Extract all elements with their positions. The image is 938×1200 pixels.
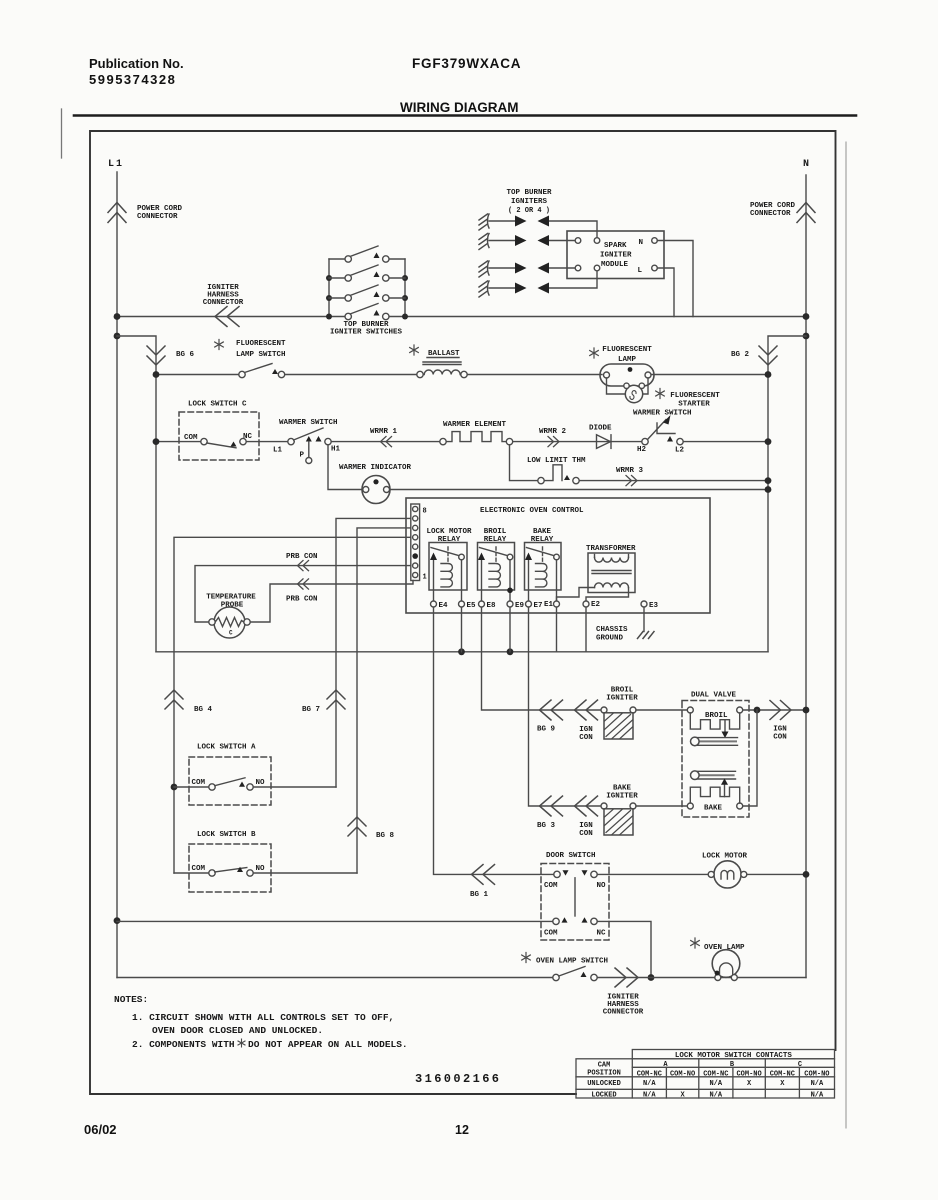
junction BG4/LSA xyxy=(171,784,178,791)
svg-text:H1: H1 xyxy=(331,446,341,454)
svg-text:Publication No.: Publication No. xyxy=(89,56,184,71)
low limit thermostat xyxy=(527,457,586,484)
wire E7 to bake igniter line xyxy=(529,607,601,806)
svg-text:WARMER SWITCH: WARMER SWITCH xyxy=(633,410,692,418)
svg-text:COM: COM xyxy=(192,779,206,787)
svg-text:IGNITERS: IGNITERS xyxy=(511,198,548,206)
svg-text:BG 1: BG 1 xyxy=(470,891,489,899)
junction BG6/fluor xyxy=(153,371,160,378)
svg-text:N: N xyxy=(803,159,809,170)
svg-text:TOP BURNER: TOP BURNER xyxy=(506,189,552,197)
wire door COM line xyxy=(117,920,553,922)
fluorescent starter xyxy=(607,378,721,409)
wire broil valve to bus xyxy=(743,709,806,711)
svg-text:E3: E3 xyxy=(649,602,659,610)
svg-text:BROIL: BROIL xyxy=(484,528,507,536)
junction bake riser xyxy=(754,707,761,714)
svg-text:BG 9: BG 9 xyxy=(537,726,556,734)
svg-text:NOTES:: NOTES: xyxy=(114,994,148,1005)
svg-text:WARMER SWITCH: WARMER SWITCH xyxy=(279,419,338,427)
EOC connector strip P1 xyxy=(411,504,427,582)
svg-text:ELECTRONIC OVEN CONTROL: ELECTRONIC OVEN CONTROL xyxy=(480,507,584,515)
scan artifact line right xyxy=(845,142,847,1128)
oven lamp switch xyxy=(522,953,608,981)
svg-text:BG 8: BG 8 xyxy=(376,832,395,840)
svg-text:WRMR 1: WRMR 1 xyxy=(370,428,398,436)
connector IGN CON broil left xyxy=(575,700,598,742)
svg-text:NO: NO xyxy=(256,779,266,787)
wire E4 to door switch line xyxy=(434,607,554,874)
wire BG4 to LSA COM xyxy=(174,786,209,788)
junction NC riser/lamp line xyxy=(648,974,655,981)
svg-text:BG 4: BG 4 xyxy=(194,706,213,714)
note asterisk xyxy=(238,1039,245,1047)
wire oven lamp line y=977.5 xyxy=(117,977,806,979)
svg-text:COM-NO: COM-NO xyxy=(670,1070,695,1078)
svg-text:DUAL VALVE: DUAL VALVE xyxy=(691,692,737,700)
svg-text:IGN: IGN xyxy=(579,726,593,734)
svg-text:H2: H2 xyxy=(637,446,647,454)
svg-text:E1: E1 xyxy=(544,601,554,609)
top burner igniter row 1 xyxy=(479,214,597,238)
svg-text:OVEN DOOR CLOSED AND UNLOCKED.: OVEN DOOR CLOSED AND UNLOCKED. xyxy=(152,1025,323,1036)
page header publication number xyxy=(89,56,521,115)
svg-text:E7: E7 xyxy=(534,602,543,610)
warmer switch right xyxy=(633,410,692,455)
svg-text:LOW LIMIT THM: LOW LIMIT THM xyxy=(527,457,586,465)
wire fluorescent line y=374.5 xyxy=(156,374,768,376)
junction BG2/lowlimit xyxy=(765,477,772,484)
svg-text:C: C xyxy=(798,1061,802,1069)
svg-text:316002166: 316002166 xyxy=(415,1072,501,1086)
svg-text:WIRING DIAGRAM: WIRING DIAGRAM xyxy=(400,100,519,115)
warmer element xyxy=(440,421,513,445)
wire bake valve to riser xyxy=(743,710,757,806)
svg-text:UNLOCKED: UNLOCKED xyxy=(587,1080,621,1088)
junction dots rails xyxy=(326,275,408,320)
wire bake igniter to valve xyxy=(636,805,687,807)
wire LSB NO to BG8 xyxy=(253,872,357,874)
electronic oven control box xyxy=(406,498,710,613)
lock switch B xyxy=(189,831,271,892)
broil igniter xyxy=(601,687,638,740)
junction L1/main xyxy=(114,313,121,320)
svg-text:BG 6: BG 6 xyxy=(176,351,195,359)
svg-text:COM-NO: COM-NO xyxy=(804,1070,829,1078)
svg-text:N/A: N/A xyxy=(811,1091,824,1099)
junction L1 to BG6 jog xyxy=(114,333,121,340)
lock switch A xyxy=(189,744,271,806)
svg-text:E4: E4 xyxy=(439,602,449,610)
connector BG 9 xyxy=(537,700,563,734)
title underline rule xyxy=(74,114,856,117)
lock switch C xyxy=(179,401,259,461)
svg-text:TRANSFORMER: TRANSFORMER xyxy=(586,545,636,553)
wire E9 down to cross line xyxy=(509,607,511,652)
svg-text:1: 1 xyxy=(423,574,427,582)
connector IGN CON valve out xyxy=(770,701,791,742)
wire switch block left rail xyxy=(328,259,330,317)
wire L1 bus vertical xyxy=(116,172,118,978)
top burner igniter switches block xyxy=(326,246,408,337)
svg-text:L1: L1 xyxy=(108,159,124,170)
svg-text:8: 8 xyxy=(423,508,427,516)
wire lock motor to N bus xyxy=(747,873,806,875)
svg-text:E5: E5 xyxy=(467,602,477,610)
wire main L line y=316.5 xyxy=(117,316,806,318)
wire pin2 PRB to probe left xyxy=(195,566,411,622)
connector BG 1 xyxy=(470,865,495,900)
wire E2 down to cross line xyxy=(585,607,587,652)
svg-text:COM: COM xyxy=(544,930,558,938)
svg-text:WRMR 2: WRMR 2 xyxy=(539,428,567,436)
switch row 1 xyxy=(329,246,405,259)
svg-text:FLUORESCENT: FLUORESCENT xyxy=(236,340,286,348)
svg-text:E9: E9 xyxy=(515,602,525,610)
wire broil igniter to valve xyxy=(636,709,687,711)
svg-text:COM-NC: COM-NC xyxy=(770,1070,795,1078)
wire pin6 to BG8 xyxy=(357,528,411,873)
svg-text:STARTER: STARTER xyxy=(678,401,710,409)
broil valve plunger xyxy=(696,738,738,746)
svg-text:L2: L2 xyxy=(675,447,685,455)
connector BG 8 xyxy=(348,817,395,840)
connector BG 3 xyxy=(537,796,563,830)
junction N/lockmotor xyxy=(803,871,810,878)
warmer indicator lamp xyxy=(328,445,771,504)
door switch link xyxy=(574,878,576,916)
svg-text:BROIL: BROIL xyxy=(705,712,728,720)
diode D1 xyxy=(589,425,612,449)
svg-text:5995374328: 5995374328 xyxy=(89,72,176,87)
svg-text:N: N xyxy=(639,239,644,247)
diagram border frame xyxy=(90,131,836,1094)
top burner igniter row 2 xyxy=(479,234,575,250)
power cord connector L1 xyxy=(108,203,183,223)
svg-text:COM: COM xyxy=(544,882,558,890)
door switch lower pole xyxy=(553,918,559,924)
svg-text:DOOR SWITCH: DOOR SWITCH xyxy=(546,852,596,860)
switch row 2 xyxy=(329,265,405,278)
svg-text:CONNECTOR: CONNECTOR xyxy=(203,299,244,307)
top burner igniter row 3 xyxy=(479,261,575,277)
junction bus/broil xyxy=(803,707,810,714)
spark igniter module U1 xyxy=(567,231,664,279)
door switch upper pole xyxy=(554,871,560,877)
svg-text:POWER CORD: POWER CORD xyxy=(750,202,796,210)
svg-text:C: C xyxy=(229,630,233,637)
svg-text:LAMP: LAMP xyxy=(618,356,637,364)
top burner igniters label xyxy=(506,189,552,215)
svg-text:WARMER INDICATOR: WARMER INDICATOR xyxy=(339,464,412,472)
svg-text:LOCK MOTOR: LOCK MOTOR xyxy=(702,853,748,861)
connector BG 4 xyxy=(165,690,213,714)
chassis ground xyxy=(596,607,654,642)
svg-text:CON: CON xyxy=(773,734,787,742)
svg-text:MODULE: MODULE xyxy=(601,261,629,269)
bake valve plunger xyxy=(696,771,736,779)
svg-text:( 2 OR 4 ): ( 2 OR 4 ) xyxy=(508,207,550,215)
svg-text:BROIL: BROIL xyxy=(611,687,634,695)
dual valve assembly xyxy=(682,692,749,818)
svg-text:N/A: N/A xyxy=(811,1080,824,1088)
wire low limit line y=480.6 xyxy=(510,445,769,481)
connector PRB CON upper xyxy=(286,553,318,571)
svg-text:PRB CON: PRB CON xyxy=(286,596,318,604)
wire warmer line y=441.6 xyxy=(156,441,768,443)
svg-text:PRB CON: PRB CON xyxy=(286,553,318,561)
svg-text:N/A: N/A xyxy=(643,1080,656,1088)
svg-text:IGNITER: IGNITER xyxy=(600,252,632,260)
connector WRMR 1 xyxy=(370,428,398,447)
svg-text:POSITION: POSITION xyxy=(587,1070,621,1078)
svg-text:NC: NC xyxy=(597,930,607,938)
notes xyxy=(114,994,408,1050)
connector PRB CON lower xyxy=(286,579,318,604)
svg-text:LOCK SWITCH A: LOCK SWITCH A xyxy=(197,744,256,752)
svg-text:N/A: N/A xyxy=(709,1080,722,1088)
svg-text:FLUORESCENT: FLUORESCENT xyxy=(670,392,720,400)
svg-text:NO: NO xyxy=(256,865,266,873)
svg-text:SPARK: SPARK xyxy=(604,242,627,250)
fluorescent lamp switch xyxy=(215,340,286,378)
svg-text:BAKE: BAKE xyxy=(613,785,632,793)
svg-text:OVEN LAMP SWITCH: OVEN LAMP SWITCH xyxy=(536,958,608,966)
svg-text:CONNECTOR: CONNECTOR xyxy=(750,210,791,218)
svg-text:E2: E2 xyxy=(591,601,601,609)
svg-text:IGNITER: IGNITER xyxy=(606,793,638,801)
svg-text:FGF379WXACA: FGF379WXACA xyxy=(412,56,521,71)
connector BG 6 xyxy=(147,346,195,365)
svg-text:CONNECTOR: CONNECTOR xyxy=(137,213,178,221)
svg-text:WRMR 3: WRMR 3 xyxy=(616,467,644,475)
switch row 4 on main line xyxy=(350,304,378,315)
connector BG 2 xyxy=(731,346,777,365)
lock motor relay K1 xyxy=(426,528,472,601)
svg-text:P: P xyxy=(300,452,305,460)
EOC output pins E4-E3 xyxy=(431,601,659,610)
lock motor M1 xyxy=(702,853,748,889)
lock motor switch contacts table xyxy=(576,1050,835,1100)
wire E1 down to cross line xyxy=(556,607,558,652)
svg-text:E8: E8 xyxy=(487,602,497,610)
svg-text:BG 2: BG 2 xyxy=(731,351,750,359)
temperature probe RT1 xyxy=(206,594,256,639)
wire E5 down to cross line xyxy=(461,607,463,652)
svg-text:LOCK MOTOR SWITCH CONTACTS: LOCK MOTOR SWITCH CONTACTS xyxy=(675,1052,793,1060)
junction BG6/warmer xyxy=(153,438,160,445)
connector WRMR 2 xyxy=(539,428,567,447)
svg-text:IGNITER SWITCHES: IGNITER SWITCHES xyxy=(330,329,403,337)
fluorescent lamp xyxy=(590,346,654,386)
bake igniter xyxy=(601,785,638,836)
svg-text:12: 12 xyxy=(455,1123,469,1137)
svg-text:COM-NC: COM-NC xyxy=(637,1070,662,1078)
junction BG2/warmer xyxy=(765,438,772,445)
wire pin1 PRB to probe right xyxy=(250,581,413,623)
bake relay K3 xyxy=(525,528,562,601)
svg-text:IGN: IGN xyxy=(773,726,787,734)
svg-text:WARMER ELEMENT: WARMER ELEMENT xyxy=(443,421,507,429)
svg-text:2. COMPONENTS WITH: 2. COMPONENTS WITH xyxy=(132,1039,235,1050)
svg-text:CONNECTOR: CONNECTOR xyxy=(603,1009,644,1017)
svg-text:06/02: 06/02 xyxy=(84,1122,117,1137)
wire jog to BG6 xyxy=(117,336,156,652)
warmer switch left xyxy=(273,419,341,464)
wire door NC to lamp line xyxy=(597,921,651,977)
wire spark module L to main xyxy=(657,268,674,317)
junction E5/cross xyxy=(458,648,465,655)
scan artifact mark left xyxy=(61,109,63,158)
wire switch block right rail xyxy=(404,259,406,317)
svg-text:LOCK MOTOR: LOCK MOTOR xyxy=(426,528,472,536)
svg-text:L1: L1 xyxy=(273,447,283,455)
svg-text:IGN: IGN xyxy=(579,822,593,830)
svg-text:COM: COM xyxy=(192,865,206,873)
svg-text:NO: NO xyxy=(597,882,607,890)
connector BG 7 xyxy=(302,690,345,714)
svg-text:DIODE: DIODE xyxy=(589,425,612,433)
wire spark module N to bus xyxy=(657,241,693,317)
svg-text:X: X xyxy=(747,1080,752,1088)
wire pin7 to BG7 xyxy=(336,518,411,787)
svg-text:COM: COM xyxy=(184,434,198,442)
svg-text:LOCK SWITCH B: LOCK SWITCH B xyxy=(197,831,256,839)
svg-text:POWER CORD: POWER CORD xyxy=(137,205,183,213)
svg-text:N/A: N/A xyxy=(709,1091,722,1099)
top burner igniter row 4 xyxy=(479,271,597,297)
connector WRMR 3 xyxy=(616,467,644,486)
wire E8 to broil igniter line xyxy=(482,607,601,710)
svg-text:TEMPERATURE: TEMPERATURE xyxy=(206,594,256,602)
svg-text:N/A: N/A xyxy=(643,1091,656,1099)
svg-text:1. CIRCUIT SHOWN WITH ALL CONT: 1. CIRCUIT SHOWN WITH ALL CONTROLS SET T… xyxy=(132,1012,394,1023)
svg-text:LOCKED: LOCKED xyxy=(591,1091,616,1099)
svg-text:LOCK SWITCH C: LOCK SWITCH C xyxy=(188,401,247,409)
svg-text:CAM: CAM xyxy=(598,1062,611,1070)
broil relay K2 xyxy=(478,528,515,601)
connector IGN CON bake xyxy=(575,796,598,838)
svg-text:CON: CON xyxy=(579,734,593,742)
svg-text:GROUND: GROUND xyxy=(596,635,624,643)
svg-text:BG 7: BG 7 xyxy=(302,706,320,714)
svg-text:LAMP SWITCH: LAMP SWITCH xyxy=(236,351,286,359)
junction N/main xyxy=(803,313,810,320)
igniter harness connector top xyxy=(203,284,244,327)
wire N bus vertical xyxy=(805,175,807,978)
wire lower cross line y=651.8 xyxy=(156,651,768,653)
svg-text:DO NOT APPEAR ON ALL MODELS.: DO NOT APPEAR ON ALL MODELS. xyxy=(248,1039,408,1050)
svg-text:CHASSIS: CHASSIS xyxy=(596,626,628,634)
junction N to BG2 jog xyxy=(803,333,810,340)
svg-text:L: L xyxy=(638,267,643,275)
wire door NO to lock motor xyxy=(597,873,708,875)
svg-text:COM-NO: COM-NO xyxy=(736,1070,761,1078)
svg-text:X: X xyxy=(780,1080,785,1088)
junction BG2/fluor xyxy=(765,371,772,378)
wire pin5 to BG4 xyxy=(174,537,411,873)
ballast xyxy=(410,345,467,378)
power cord connector N xyxy=(750,202,815,223)
wire BG4 to LSB COM xyxy=(174,872,209,874)
junction L1/door line xyxy=(114,917,121,924)
connector igniter harness bottom xyxy=(603,968,644,1017)
svg-text:COM-NC: COM-NC xyxy=(703,1070,728,1078)
transformer T1 xyxy=(557,545,637,601)
svg-text:BAKE: BAKE xyxy=(704,805,723,813)
switch row 3 xyxy=(329,285,405,298)
wire LSA NO to BG7 xyxy=(253,786,336,788)
oven lamp xyxy=(691,938,745,981)
svg-text:BAKE: BAKE xyxy=(533,528,552,536)
junction E9/cross xyxy=(507,648,514,655)
svg-text:FLUORESCENT: FLUORESCENT xyxy=(602,346,652,354)
svg-text:BG 3: BG 3 xyxy=(537,822,556,830)
svg-text:CON: CON xyxy=(579,830,593,838)
svg-text:IGNITER: IGNITER xyxy=(606,695,638,703)
wire jog to BG2 xyxy=(768,336,806,652)
door switch xyxy=(541,852,609,940)
